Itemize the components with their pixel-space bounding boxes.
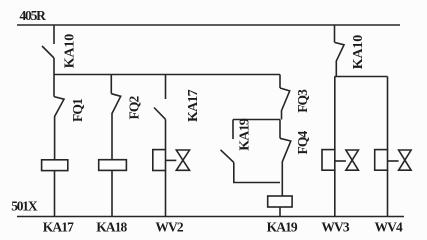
svg-text:KA18: KA18: [96, 220, 127, 235]
svg-text:KA17: KA17: [43, 220, 74, 235]
svg-text:KA19: KA19: [267, 220, 298, 235]
svg-text:KA19: KA19: [238, 118, 253, 151]
svg-text:FQ2: FQ2: [126, 96, 141, 120]
svg-text:WV4: WV4: [375, 220, 403, 235]
svg-text:KA10: KA10: [63, 34, 78, 68]
svg-text:WV2: WV2: [155, 220, 183, 235]
svg-text:501X: 501X: [11, 199, 38, 214]
svg-text:405R: 405R: [20, 8, 47, 23]
svg-text:FQ4: FQ4: [295, 131, 310, 155]
svg-text:KA10: KA10: [351, 35, 366, 69]
svg-text:FQ1: FQ1: [70, 98, 85, 122]
svg-text:WV3: WV3: [321, 220, 349, 235]
svg-text:FQ3: FQ3: [295, 89, 310, 113]
svg-text:KA17: KA17: [186, 89, 201, 122]
